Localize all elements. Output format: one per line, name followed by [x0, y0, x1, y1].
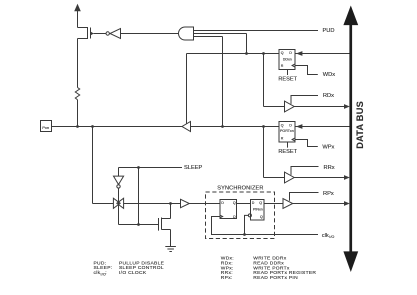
svg-text:RDx: RDx — [323, 93, 334, 99]
svg-text:PUD: PUD — [323, 28, 335, 34]
svg-text:DATA BUS: DATA BUS — [355, 101, 365, 149]
svg-text:SYNCHRONIZER: SYNCHRONIZER — [217, 185, 263, 191]
svg-text::: : — [105, 271, 107, 276]
svg-text:PINxn: PINxn — [253, 208, 263, 212]
svg-text:D: D — [289, 51, 292, 55]
svg-text:WDx: WDx — [323, 72, 335, 78]
svg-text:D: D — [221, 201, 224, 205]
svg-text:Q: Q — [260, 215, 263, 219]
svg-text:PORTxn: PORTxn — [280, 129, 294, 133]
svg-text:Q: Q — [281, 124, 284, 128]
svg-text:Q: Q — [259, 201, 262, 205]
svg-text:WPx: WPx — [322, 145, 334, 151]
svg-text:R: R — [281, 64, 284, 68]
svg-text:RPx:: RPx: — [221, 275, 233, 281]
svg-text:clk: clk — [322, 233, 329, 239]
svg-text:Q: Q — [233, 201, 236, 205]
svg-text:RESET: RESET — [278, 76, 297, 82]
svg-text:Q: Q — [281, 51, 284, 55]
svg-text:Pxn: Pxn — [42, 125, 49, 130]
svg-text:I/O: I/O — [329, 235, 334, 239]
svg-text:SLEEP: SLEEP — [184, 165, 203, 171]
svg-text:Q: Q — [233, 215, 236, 219]
svg-text:RESET: RESET — [278, 149, 297, 155]
svg-text:RPx: RPx — [323, 191, 334, 197]
svg-text:I/O CLOCK: I/O CLOCK — [119, 270, 147, 276]
svg-text:DDxn: DDxn — [283, 57, 292, 61]
svg-text:READ PORTx PIN: READ PORTx PIN — [253, 275, 298, 281]
svg-text:D: D — [289, 124, 292, 128]
svg-text:R: R — [281, 137, 284, 141]
svg-text:RRx: RRx — [324, 165, 335, 171]
svg-text:D: D — [252, 201, 255, 205]
